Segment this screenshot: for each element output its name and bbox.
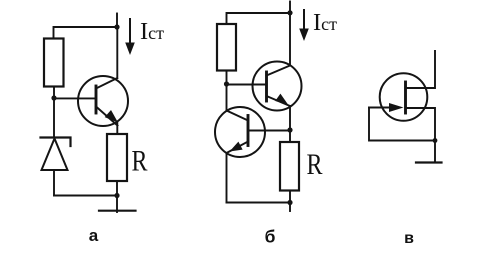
wire below R2	[226, 71, 228, 85]
wire supply stub a	[116, 14, 118, 28]
node top junction b	[287, 10, 292, 15]
transistor VT2 (upper, circuit b)	[253, 62, 302, 111]
transistor VT1 (circuit a)	[78, 76, 128, 126]
wire top of circuit b	[227, 13, 291, 24]
node base junction b	[224, 81, 229, 86]
FET VT4 body (circuit v)	[380, 73, 428, 121]
wire gate-source loop	[369, 108, 435, 141]
wire zener bottom	[53, 170, 55, 196]
transistor VT1 base bar	[95, 86, 98, 113]
svg-text:Iст: Iст	[140, 18, 164, 45]
FET VT4 channel bar	[404, 82, 407, 113]
wire top-left L of circuit a	[54, 27, 118, 39]
node top junction a	[114, 24, 119, 29]
current arrow Ict a	[129, 19, 131, 44]
wire below R b	[289, 191, 291, 203]
svg-text:Iст: Iст	[313, 9, 337, 36]
wire bottom b	[227, 202, 291, 204]
transistor VT2 base bar	[265, 72, 268, 101]
svg-text:R: R	[132, 145, 148, 178]
transistor VT2 collector	[267, 13, 291, 76]
wire base of VT3	[248, 130, 290, 132]
svg-text:а: а	[89, 226, 99, 245]
node source junction v	[433, 138, 438, 143]
resistor R (load, circuit b)	[280, 142, 299, 191]
transistor VT2 emitter arrowhead	[275, 94, 288, 105]
transistor VT3 collector	[227, 84, 249, 121]
current arrow Ict b	[303, 10, 305, 30]
svg-text:R: R	[307, 148, 323, 181]
transistor VT3 emitter	[227, 142, 249, 203]
transistor VT3 emitter arrowhead	[230, 142, 243, 152]
node bottom junction a	[114, 193, 119, 198]
wire ground stub b	[289, 203, 291, 212]
resistor R (load, circuit a)	[107, 134, 127, 181]
transistor VT3 base bar	[247, 116, 250, 146]
ground bar a	[99, 210, 136, 212]
FET VT4 gate lead	[369, 107, 392, 109]
FET VT4 source lead	[406, 108, 436, 162]
resistor R1 (bias, circuit a)	[44, 39, 64, 87]
wire supply stub b	[289, 2, 291, 13]
transistor VT3 (lower, circuit b)	[215, 107, 265, 157]
zener diode VD1 cathode bar	[41, 138, 71, 147]
node base junction a	[51, 95, 56, 100]
ground bar v	[416, 161, 442, 163]
wire bottom a	[54, 195, 117, 197]
transistor VT1 emitter arrowhead	[105, 110, 118, 123]
FET VT4 drain lead	[406, 51, 436, 88]
wire below R1	[53, 87, 55, 99]
wire ground stub a	[116, 196, 118, 213]
wire base of VT2	[227, 84, 267, 86]
wire below R a	[116, 181, 118, 196]
node bottom junction b	[287, 200, 292, 205]
wire base of VT1	[54, 97, 96, 99]
transistor VT2 emitter	[267, 96, 291, 142]
svg-text:б: б	[265, 227, 276, 247]
FET VT4 gate arrowhead	[389, 103, 404, 112]
node base junction VT3	[287, 127, 292, 132]
wire zener top	[53, 98, 55, 138]
svg-text:в: в	[404, 230, 414, 247]
zener diode VD1 triangle	[42, 139, 68, 171]
transistor VT1 collector	[96, 27, 117, 89]
transistor VT1 emitter	[96, 107, 118, 135]
resistor R2 (bias, circuit b)	[217, 24, 236, 71]
